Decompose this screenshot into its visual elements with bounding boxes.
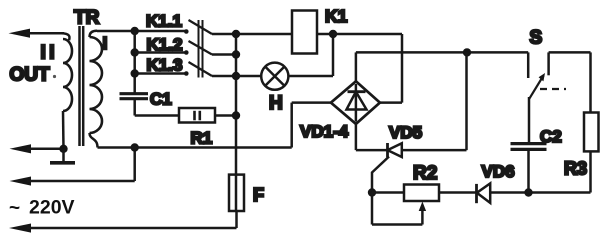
- wire K1.3 moving: [135, 72, 187, 75]
- node K1.1 moving junction: [131, 27, 139, 35]
- transformer TR winding II: [62, 33, 73, 149]
- svg-text:VD1-4: VD1-4: [300, 122, 349, 141]
- resistor R3: [584, 113, 599, 193]
- bridge rectifier VD1-4: [331, 81, 380, 124]
- diode VD6: [477, 183, 591, 203]
- svg-text:S: S: [530, 28, 543, 49]
- svg-text:H: H: [269, 93, 283, 114]
- svg-text:R2: R2: [413, 163, 437, 184]
- svg-text:VD5: VD5: [389, 123, 422, 142]
- node trunk K1.3: [232, 72, 240, 80]
- svg-text:K1: K1: [325, 6, 348, 26]
- node trunk R1: [232, 111, 240, 119]
- contact K1.3: [184, 62, 236, 76]
- wire bridge top riser: [355, 52, 358, 81]
- wire top rail right: [356, 51, 528, 54]
- transformer core: [80, 26, 84, 146]
- resistor R1: [135, 108, 236, 123]
- svg-text:K1.3: K1.3: [147, 55, 183, 74]
- wire VD5 gate: [372, 157, 389, 193]
- svg-text:VD6: VD6: [482, 162, 515, 181]
- capacitor C2: [511, 97, 547, 193]
- node K1.3 moving junction: [131, 69, 139, 77]
- relay coil K1: [236, 11, 333, 54]
- wire mains upper arrow: [10, 148, 135, 186]
- resistor R2: [372, 185, 477, 202]
- wire primary bottom to bridge: [98, 103, 331, 148]
- linkage bar: [199, 20, 203, 78]
- svg-text:II: II: [41, 43, 59, 64]
- node C2 bottom junction: [524, 188, 532, 196]
- switch S: [528, 52, 566, 98]
- wire rail to R3: [549, 52, 591, 112]
- contact K1.1: [184, 20, 236, 34]
- fuse F: [229, 175, 244, 211]
- node R2 left junction: [368, 188, 376, 196]
- svg-text:I: I: [103, 33, 108, 53]
- capacitor C1: [120, 94, 149, 116]
- wire secondary top rail: [97, 30, 186, 33]
- label ~ 220V: [9, 197, 75, 220]
- polarity mark: [53, 75, 56, 78]
- wire left bus: [133, 31, 136, 94]
- thyristor VD5: [356, 52, 467, 157]
- node VD5 rail junction: [463, 48, 471, 56]
- wire OUT bottom: [10, 144, 64, 153]
- svg-text:F: F: [253, 185, 264, 205]
- ground chassis bar: [50, 149, 75, 163]
- wire mains lower arrow: [9, 211, 237, 233]
- svg-text:220V: 220V: [29, 197, 75, 219]
- wire K1 to bridge right: [333, 34, 402, 103]
- svg-text:K1.2: K1.2: [147, 35, 183, 54]
- contact K1.2: [184, 41, 236, 55]
- wire trunk: [235, 34, 238, 211]
- wire K1.2 moving: [135, 51, 187, 54]
- svg-text:C2: C2: [540, 127, 562, 146]
- svg-text:TR: TR: [74, 8, 100, 29]
- node K1.2 moving junction: [131, 48, 139, 56]
- node OUT top arrow: [9, 29, 65, 38]
- node trunk K1.1: [232, 30, 240, 38]
- transformer TR winding I: [90, 31, 103, 148]
- lamp H: [236, 34, 333, 90]
- node primary bottom junction: [131, 143, 139, 151]
- node K1 right junction: [329, 30, 337, 38]
- wire R2 wiper loop: [372, 193, 426, 225]
- svg-text:K1.1: K1.1: [146, 12, 182, 31]
- svg-text:R1: R1: [191, 129, 213, 148]
- wire bridge bottom riser: [355, 124, 358, 150]
- svg-text:~: ~: [9, 198, 20, 219]
- node OUT bottom junction: [59, 145, 67, 153]
- node trunk K1.2: [232, 50, 240, 58]
- svg-text:C1: C1: [150, 90, 172, 109]
- svg-text:OUT: OUT: [10, 65, 51, 86]
- svg-text:R3: R3: [564, 159, 587, 179]
